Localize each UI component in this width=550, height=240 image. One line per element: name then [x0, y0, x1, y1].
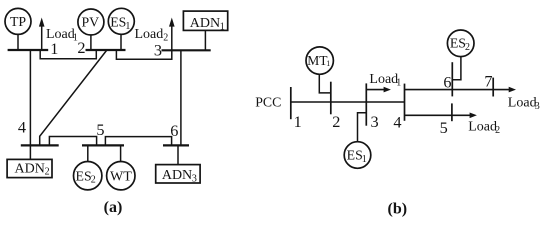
svg-text:Load: Load: [369, 72, 398, 87]
svg-text:1: 1: [396, 78, 401, 89]
svg-text:4: 4: [393, 112, 401, 131]
svg-text:(a): (a): [104, 199, 123, 216]
svg-text:1: 1: [50, 39, 58, 58]
svg-text:PV: PV: [81, 15, 99, 30]
svg-text:WT: WT: [110, 169, 132, 184]
svg-text:2: 2: [163, 33, 168, 44]
svg-text:2: 2: [77, 38, 85, 57]
svg-text:5: 5: [440, 118, 448, 137]
svg-text:ADN: ADN: [162, 168, 192, 183]
svg-text:Load: Load: [508, 96, 537, 111]
svg-text:3: 3: [371, 112, 379, 131]
svg-text:1: 1: [294, 112, 302, 131]
svg-text:MT: MT: [307, 53, 328, 68]
svg-text:3: 3: [192, 174, 197, 185]
svg-text:1: 1: [326, 59, 330, 68]
svg-text:3: 3: [535, 101, 540, 112]
svg-text:1: 1: [362, 154, 367, 165]
svg-text:2: 2: [45, 167, 50, 178]
svg-text:3: 3: [154, 41, 162, 60]
svg-text:6: 6: [443, 73, 451, 92]
svg-text:2: 2: [91, 175, 96, 186]
svg-text:7: 7: [484, 72, 492, 91]
svg-text:ES: ES: [450, 36, 466, 51]
svg-text:ES: ES: [110, 15, 126, 30]
svg-text:4: 4: [18, 118, 26, 137]
svg-text:5: 5: [96, 120, 104, 139]
svg-text:ADN: ADN: [190, 16, 220, 31]
svg-text:TP: TP: [10, 14, 26, 29]
svg-text:ES: ES: [76, 168, 92, 183]
svg-text:2: 2: [495, 125, 500, 136]
svg-text:(b): (b): [388, 201, 408, 218]
svg-text:1: 1: [125, 21, 130, 32]
svg-text:2: 2: [332, 112, 340, 131]
svg-text:ES: ES: [347, 147, 363, 162]
svg-text:2: 2: [465, 42, 470, 53]
svg-text:6: 6: [170, 121, 178, 140]
svg-text:1: 1: [220, 21, 225, 32]
svg-text:ADN: ADN: [15, 161, 45, 176]
svg-text:PCC: PCC: [255, 95, 281, 110]
svg-text:Load: Load: [468, 119, 497, 134]
